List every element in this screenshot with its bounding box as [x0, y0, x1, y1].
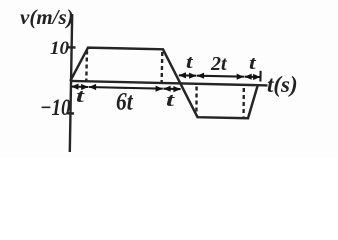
y-axis	[70, 14, 72, 152]
dim line t (below, 7t..8t)	[163, 88, 180, 91]
dashed drop at x=t	[85, 51, 88, 81]
dashed drop at x=11t	[242, 88, 245, 117]
label v(m/s)	[20, 7, 74, 28]
label t below first	[76, 87, 84, 106]
arrowheads below t span (7t..8t)	[163, 86, 170, 92]
dim line 2t (above, 9t..11t)	[197, 76, 244, 77]
arrowheads 2t span	[197, 73, 204, 79]
dashed drop at x=7t	[160, 52, 163, 84]
velocity-time graph	[0, 0, 338, 158]
dashed drop at x=9t	[195, 87, 198, 116]
dim line t (above, 8t..9t)	[179, 74, 197, 76]
dim line 6t (below, t..7t)	[89, 87, 163, 89]
tick +10	[67, 46, 76, 49]
dim line t (below, 0..t)	[72, 86, 89, 89]
arrowheads above t span (11t..12t)	[245, 74, 252, 80]
dim line t (above, 11t..12t)	[245, 76, 261, 78]
label -10	[40, 97, 71, 120]
label 2t	[211, 54, 227, 74]
label t above first	[186, 53, 193, 72]
x-axis	[70, 81, 268, 86]
tick -10	[67, 112, 75, 115]
arrowheads below-axis t span	[71, 84, 78, 90]
terminal tick right end	[259, 71, 261, 82]
label 10	[50, 39, 69, 58]
label t above second	[249, 54, 256, 73]
arrowheads above t span (8t..9t)	[179, 72, 186, 78]
wire velocity curve	[70, 48, 258, 119]
label t(s)	[267, 73, 298, 96]
label 6t	[116, 89, 133, 114]
label t below second	[166, 91, 174, 110]
arrowheads 6t span	[89, 84, 96, 90]
